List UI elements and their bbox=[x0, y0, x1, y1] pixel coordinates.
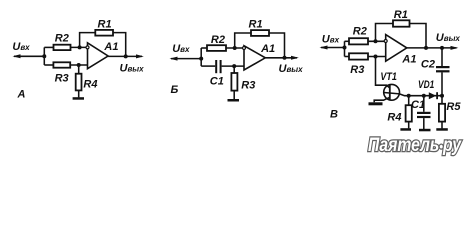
node Uvyx output label (circuit B) bbox=[279, 63, 304, 75]
node output junction (circuit A) bbox=[124, 54, 128, 58]
node label B (section letter) bbox=[171, 84, 179, 96]
node output C2 junction (circuit V) bbox=[440, 46, 444, 50]
wire base row VT1 to VD1/C1/R4 (circuit V) bbox=[384, 93, 442, 96]
svg-text:C1: C1 bbox=[411, 99, 425, 111]
svg-text:R2: R2 bbox=[353, 25, 367, 37]
svg-text:В: В bbox=[330, 109, 338, 121]
node label V (section letter) bbox=[330, 109, 338, 121]
wire collector from R3 node (circuit V) bbox=[376, 57, 390, 89]
wire R1 to output (circuit B) bbox=[269, 33, 285, 58]
svg-text:Uвх: Uвх bbox=[322, 34, 340, 46]
wire feedback up from R2 node (circuit V) bbox=[376, 24, 394, 42]
svg-text:Uвых: Uвых bbox=[279, 63, 304, 75]
node Uvx input label (circuit B) bbox=[172, 43, 190, 55]
svg-text:VD1: VD1 bbox=[418, 79, 434, 91]
wire R3 to op-amp (circuit V) bbox=[368, 56, 386, 58]
resistor R4 (circuit V) bbox=[387, 105, 411, 124]
svg-text:Паятель•ру: Паятель•ру bbox=[368, 135, 462, 156]
svg-text:R3: R3 bbox=[350, 64, 364, 76]
svg-text:R2: R2 bbox=[211, 34, 225, 46]
wire to C1 (circuit B) bbox=[201, 65, 215, 67]
svg-text:Uвх: Uвх bbox=[172, 43, 190, 55]
node junction R3/collector (circuit V) bbox=[374, 55, 378, 59]
wire input branch vertical (circuit V) bbox=[344, 41, 346, 56]
wire output (circuit B) bbox=[265, 56, 299, 60]
capacitor C1 (circuit V) bbox=[411, 99, 431, 118]
svg-text:R1: R1 bbox=[98, 18, 112, 30]
wire input arrow (circuit A) bbox=[13, 54, 45, 58]
svg-text:Б: Б bbox=[171, 84, 179, 96]
node Uvyx output label (circuit A) bbox=[120, 63, 145, 75]
wire to R3 (circuit V) bbox=[345, 56, 350, 58]
node output feedback junction (circuit V) bbox=[424, 46, 428, 50]
node input junction (circuit A) bbox=[42, 54, 46, 58]
wire to R2 (circuit A) bbox=[44, 46, 53, 48]
wire R2 to op-amp (circuit V) bbox=[368, 40, 386, 42]
op-amp A1 (circuit A) bbox=[86, 41, 118, 69]
resistor R2 (circuit A) bbox=[54, 33, 71, 51]
wire R1 to output (circuit A) bbox=[113, 33, 126, 57]
resistor R1 (circuit V) bbox=[393, 9, 410, 26]
svg-text:R1: R1 bbox=[394, 9, 408, 21]
ground (R4, circuit V) bbox=[400, 128, 411, 131]
resistor R5 (circuit V) bbox=[439, 101, 461, 122]
node input junction (circuit V) bbox=[343, 46, 347, 50]
wire input arrow (circuit B) bbox=[170, 57, 202, 61]
node label A (section letter) bbox=[17, 89, 26, 101]
node Uvyx output label (circuit V) bbox=[436, 32, 461, 44]
svg-text:R1: R1 bbox=[249, 18, 263, 30]
wire R1 to output (circuit V) bbox=[410, 24, 427, 48]
resistor R3 (circuit B) bbox=[231, 73, 255, 91]
node Uvx input label (circuit V) bbox=[322, 34, 340, 46]
capacitor C2 (circuit V) bbox=[421, 58, 450, 72]
wire C2 to VD1 row (circuit V) bbox=[441, 72, 443, 95]
resistor R3 (circuit A) bbox=[53, 62, 70, 84]
resistor R2 (circuit V) bbox=[349, 25, 368, 44]
resistor R2 (circuit B) bbox=[207, 34, 226, 51]
svg-text:A1: A1 bbox=[103, 41, 118, 53]
wire input branch vertical (circuit B) bbox=[200, 48, 202, 66]
wire R3 to ground (circuit B) bbox=[233, 91, 235, 100]
node junction R2/feedback (circuit V) bbox=[374, 39, 378, 43]
resistor R1 (circuit B) bbox=[249, 18, 270, 36]
wire output (circuit A) bbox=[108, 54, 144, 58]
wire R4 to ground (circuit V) bbox=[408, 122, 410, 129]
wire R2 to op-amp (circuit B) bbox=[226, 47, 245, 49]
wire to R3 (circuit A) bbox=[44, 64, 53, 66]
node junction VD1/R5 (circuit V) bbox=[440, 94, 444, 98]
svg-text:R4: R4 bbox=[387, 112, 401, 124]
watermark Paytel.ru bbox=[368, 135, 462, 156]
wire R5 stem (circuit V) bbox=[441, 96, 443, 104]
wire R4 stem (circuit V) bbox=[408, 96, 410, 106]
wire to R2 (circuit V) bbox=[345, 40, 350, 42]
node junction C1/R3 (circuit B) bbox=[232, 64, 236, 68]
wire R3 stem (circuit B) bbox=[233, 66, 235, 73]
node input junction (circuit B) bbox=[199, 57, 203, 61]
wire output to C2 (circuit V) bbox=[441, 48, 443, 66]
wire R3 to op-amp (circuit A) bbox=[70, 64, 88, 66]
resistor R4 (circuit A) bbox=[76, 74, 98, 91]
node junction R3/R4 (circuit A) bbox=[77, 63, 81, 67]
svg-text:R4: R4 bbox=[83, 78, 97, 90]
svg-text:А: А bbox=[17, 89, 26, 101]
svg-text:R5: R5 bbox=[446, 101, 461, 113]
node junction R2/feedback (circuit B) bbox=[233, 46, 237, 50]
node junction R2/feedback (circuit A) bbox=[78, 45, 82, 49]
wire input arrow (circuit V) bbox=[320, 46, 345, 50]
svg-text:A1: A1 bbox=[401, 53, 416, 65]
wire R2 to op-amp (circuit A) bbox=[71, 46, 89, 48]
svg-text:VT1: VT1 bbox=[380, 71, 397, 83]
svg-text:C1: C1 bbox=[210, 75, 224, 87]
svg-text:A1: A1 bbox=[260, 43, 275, 55]
node junction C1 (circuit V) bbox=[422, 94, 426, 98]
node junction R4 (circuit V) bbox=[407, 94, 411, 98]
diode VD1 (circuit V) bbox=[418, 79, 438, 99]
wire feedback up from R2 node (circuit B) bbox=[235, 33, 251, 48]
wire input branch vertical (circuit A) bbox=[43, 47, 45, 65]
node Uvx input label (circuit A) bbox=[12, 41, 30, 53]
wire feedback up from R2 node (circuit A) bbox=[80, 33, 96, 48]
capacitor C1 (circuit B) bbox=[210, 60, 224, 87]
op-amp A1 (circuit B) bbox=[243, 43, 276, 70]
svg-text:Uвых: Uвых bbox=[120, 63, 145, 75]
wire R4 to ground (circuit A) bbox=[78, 90, 80, 97]
svg-text:R2: R2 bbox=[55, 33, 69, 45]
node output junction (circuit B) bbox=[283, 56, 287, 60]
ground (circuit B) bbox=[228, 99, 240, 102]
resistor R3 (circuit V) bbox=[349, 53, 368, 76]
wire C1 to op-amp (circuit B) bbox=[222, 65, 245, 67]
svg-text:Uвых: Uвых bbox=[436, 32, 461, 44]
wire emitter to ground (circuit V) bbox=[374, 97, 390, 102]
op-amp A1 (circuit V) bbox=[384, 35, 416, 66]
wire R5 to ground (circuit V) bbox=[441, 122, 443, 129]
ground (C1, circuit V) bbox=[419, 129, 431, 132]
resistor R1 (circuit A) bbox=[95, 18, 113, 35]
svg-text:R3: R3 bbox=[55, 73, 69, 85]
wire R4 stem (circuit A) bbox=[78, 65, 80, 74]
wire C1 to ground (circuit V) bbox=[423, 118, 425, 129]
wire C1 stem (circuit V) bbox=[423, 96, 425, 112]
svg-text:R3: R3 bbox=[241, 79, 255, 91]
ground (emitter, circuit V) bbox=[369, 102, 383, 105]
svg-text:C2: C2 bbox=[421, 58, 435, 70]
ground (R5, circuit V) bbox=[436, 128, 448, 131]
wire output (circuit V) bbox=[407, 46, 459, 50]
ground (circuit A) bbox=[73, 97, 84, 100]
wire to R2 (circuit B) bbox=[201, 47, 207, 49]
svg-text:Uвх: Uвх bbox=[12, 41, 30, 53]
transistor VT1 (circuit V) bbox=[380, 71, 399, 100]
